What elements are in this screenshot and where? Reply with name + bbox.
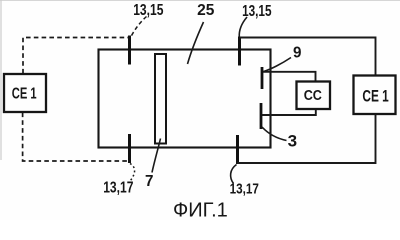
svg-text:13,17: 13,17 bbox=[230, 180, 259, 197]
leader to label 3 bbox=[262, 127, 287, 141]
electrode 13,15 top-right tick bbox=[238, 37, 241, 66]
leader to label 13,15 right bbox=[239, 17, 247, 37]
svg-text:25: 25 bbox=[197, 2, 215, 19]
wire dashed CE1-left bottom to electrode 13,17 bbox=[23, 113, 127, 162]
wire dashed CE1-left top to electrode 13,15 bbox=[23, 38, 128, 74]
element 7 thin rectangle bbox=[155, 54, 166, 144]
enclosure 25 big rectangle bbox=[99, 50, 271, 148]
leader dotted to label 13,17 left bbox=[130, 164, 135, 181]
svg-text:3: 3 bbox=[288, 132, 297, 151]
box CE1 right bbox=[354, 76, 396, 115]
svg-text:7: 7 bbox=[145, 173, 153, 190]
svg-text:CE 1: CE 1 bbox=[362, 88, 388, 106]
electrode 9 plate bbox=[261, 67, 264, 89]
wire bottom-right electrode to CE1-right bbox=[238, 115, 376, 163]
scan edge left bbox=[0, 0, 2, 160]
svg-text:CC: CC bbox=[304, 86, 322, 103]
leader to label 13,17 right bbox=[231, 165, 237, 184]
scan edge top bbox=[0, 0, 400, 2]
svg-text:13,15: 13,15 bbox=[242, 2, 272, 19]
svg-text:ФИГ.1: ФИГ.1 bbox=[173, 199, 228, 220]
svg-text:9: 9 bbox=[293, 44, 302, 61]
electrode 13,17 bottom-left tick bbox=[128, 134, 131, 163]
svg-text:CE 1: CE 1 bbox=[12, 83, 37, 102]
wire electrode 9 to CC top bbox=[263, 72, 316, 82]
electrode 13,15 top-left tick bbox=[128, 36, 131, 65]
leader dashed to label 13,15 left bbox=[131, 17, 147, 37]
box CC bbox=[297, 82, 331, 110]
leader to label 7 bbox=[152, 139, 161, 173]
wire top-right electrode to CE1-right bbox=[240, 38, 376, 75]
leader to label 25 bbox=[188, 22, 204, 64]
wire electrode 3 to CC bottom bbox=[262, 109, 316, 115]
leader to label 9 bbox=[264, 58, 292, 72]
electrode 3 plate bbox=[260, 103, 263, 129]
electrode 13,17 bottom-right tick bbox=[236, 135, 239, 164]
svg-text:13,15: 13,15 bbox=[133, 1, 163, 19]
box CE1 left bbox=[4, 74, 46, 112]
svg-text:13,17: 13,17 bbox=[103, 178, 133, 196]
